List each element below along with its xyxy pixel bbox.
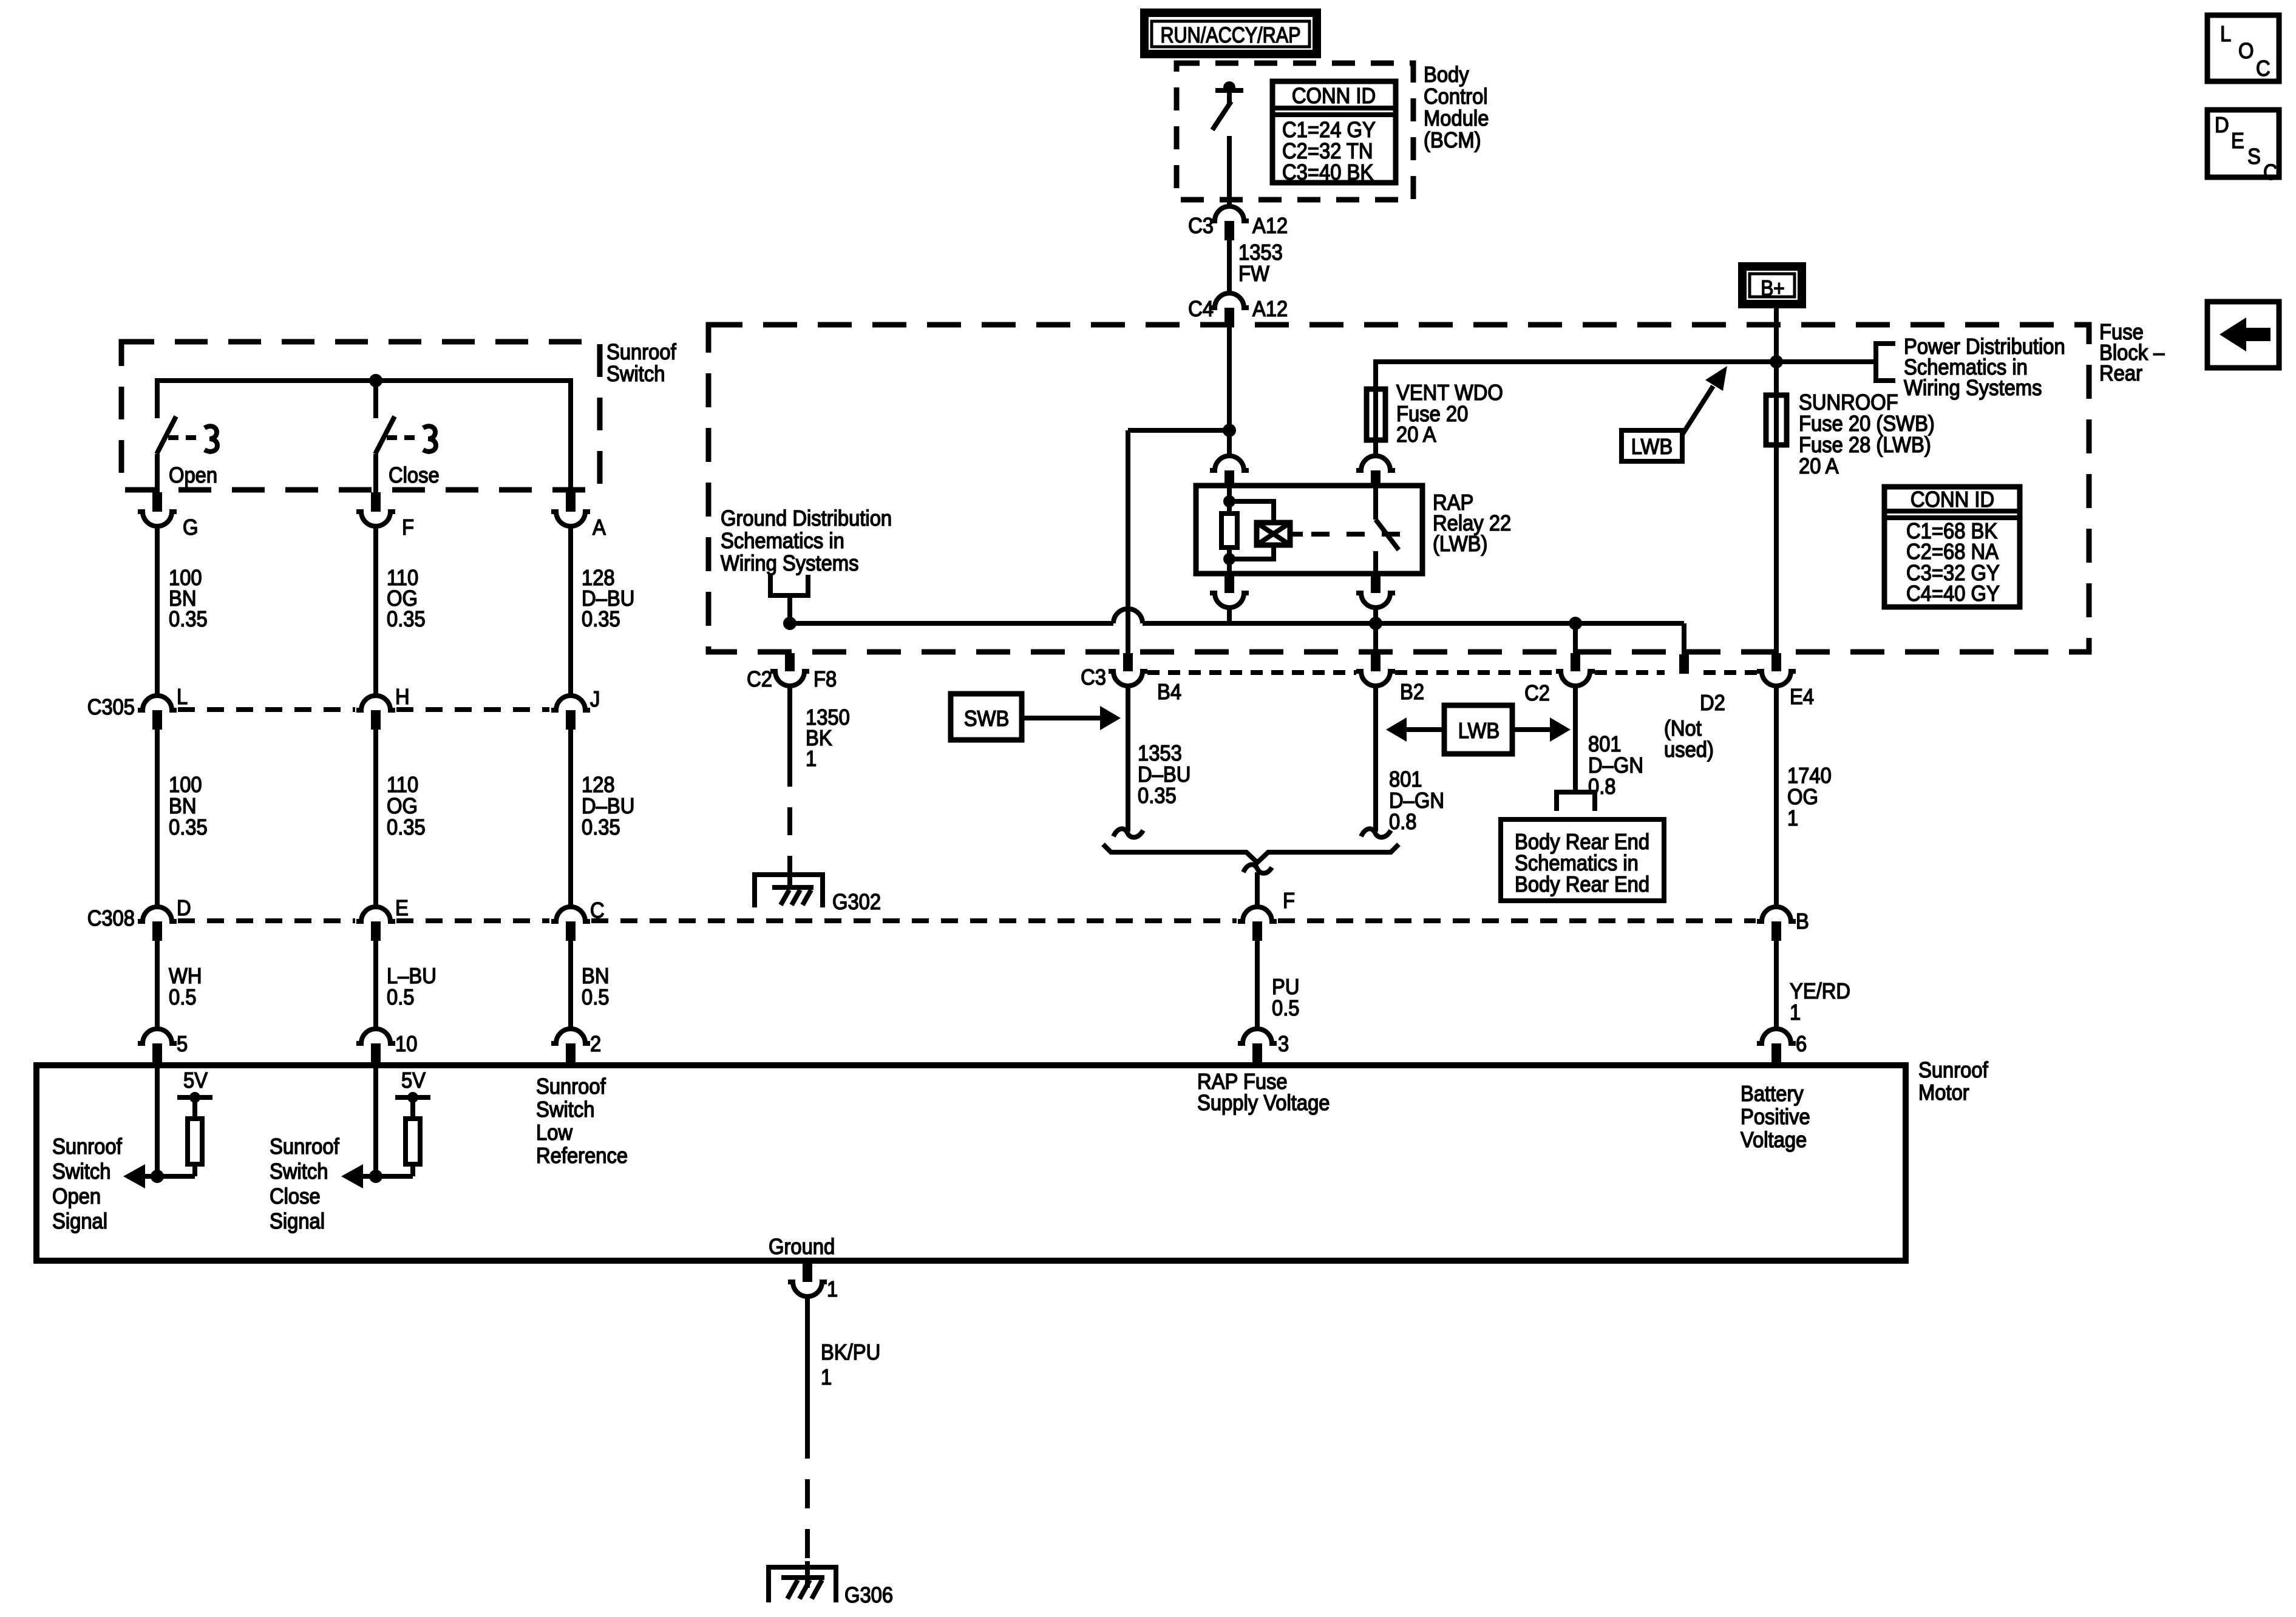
wire WH 0.5 label [169, 964, 202, 1010]
DESC legend box [2207, 110, 2279, 185]
svg-text:Ground Distribution: Ground Distribution [721, 507, 892, 531]
wire BK/PU label [821, 1341, 880, 1390]
wire 801 D-GN 0.8 label (B2) [1389, 768, 1444, 835]
svg-text:Fuse 28 (LWB): Fuse 28 (LWB) [1799, 433, 1931, 458]
svg-text:G302: G302 [832, 890, 881, 915]
svg-text:A12: A12 [1252, 297, 1288, 322]
svg-text:1: 1 [827, 1278, 838, 1302]
svg-text:5: 5 [177, 1032, 188, 1057]
connector C308 pin E [356, 897, 409, 941]
5V rail (open) [177, 1069, 212, 1103]
connector relay coil pin (top) [1210, 456, 1249, 486]
svg-text:OG: OG [1787, 785, 1818, 810]
LWB tag box (harness) [1444, 705, 1512, 754]
wire ground distribution drop [787, 595, 792, 623]
svg-text:801: 801 [1588, 733, 1622, 757]
connector C305 pin J [551, 688, 600, 730]
wire 1740 OG 1 label [1787, 764, 1832, 831]
svg-text:B+: B+ [1761, 276, 1785, 300]
SWB tag box [951, 694, 1022, 740]
connector C305 pin H [356, 685, 410, 730]
wire A to C305 J [568, 526, 573, 696]
svg-text:BN: BN [169, 795, 196, 819]
relay coil wire [1227, 486, 1232, 574]
LWB tag arrow [1682, 366, 1727, 435]
resistor open pull-up [188, 1100, 202, 1176]
motor pin 2 [551, 1029, 601, 1062]
svg-text:Reference: Reference [536, 1144, 628, 1168]
svg-text:O: O [2238, 39, 2254, 64]
wire F8 to G302 dashed [787, 759, 792, 869]
svg-text:BK/PU: BK/PU [821, 1341, 880, 1365]
wire BK/PU dashed [805, 1429, 810, 1561]
svg-text:C4: C4 [1188, 297, 1214, 322]
wire 128 D-BU 0.35 label (lower) [582, 773, 634, 840]
svg-text:Body Rear End: Body Rear End [1515, 830, 1649, 855]
open signal arrowhead [123, 1164, 145, 1188]
CONN ID table (BCM) [1272, 81, 1396, 185]
svg-text:0.35: 0.35 [387, 608, 426, 632]
close switch detent catch [423, 426, 436, 452]
svg-text:C305: C305 [87, 696, 135, 720]
motor pin 1 [788, 1264, 838, 1301]
wire L to C308 D [155, 730, 160, 907]
node ground bus left [783, 617, 796, 630]
close switch blade [375, 416, 395, 454]
close signal horizontal [362, 1174, 413, 1179]
close switch wire from bus [373, 381, 378, 418]
svg-text:CONN ID: CONN ID [1911, 488, 1994, 512]
svg-text:C4=40 GY: C4=40 GY [1906, 582, 2000, 606]
svg-text:Switch: Switch [536, 1098, 594, 1122]
svg-text:Sunroof: Sunroof [270, 1135, 339, 1159]
ground G302 [755, 869, 881, 914]
off-page bracket body rear end [1557, 792, 1595, 811]
svg-text:C2=32 TN: C2=32 TN [1282, 140, 1373, 164]
node close signal junction [369, 1170, 382, 1183]
wire C4 into fuse block [1227, 327, 1232, 430]
wire F8 to G302 solid [787, 686, 792, 759]
wire BK/PU solid [805, 1297, 810, 1429]
label Sunroof Switch Open Signal [52, 1135, 122, 1234]
node switch bus [369, 374, 382, 387]
svg-text:1740: 1740 [1787, 764, 1832, 788]
motor pin 6 [1757, 1029, 1807, 1062]
svg-text:C3: C3 [1188, 214, 1214, 239]
wire A from bus [568, 418, 573, 492]
svg-text:D: D [177, 897, 191, 921]
wire sunroof fuse to E4 [1774, 445, 1779, 653]
svg-text:F: F [1283, 889, 1295, 914]
Fuse Block - Rear dashed outline [708, 325, 2089, 652]
svg-text:CONN ID: CONN ID [1292, 84, 1376, 109]
node junction at RAP feed [1223, 424, 1236, 437]
pin D2 stub (not used) [1679, 654, 1689, 674]
svg-text:F: F [402, 516, 414, 540]
open signal wire inside motor [155, 1062, 160, 1176]
wire B4 end hook [1113, 829, 1143, 837]
svg-text:Switch: Switch [52, 1160, 110, 1184]
svg-text:L: L [2220, 22, 2231, 47]
svg-text:D2: D2 [1700, 691, 1725, 716]
wire E to motor pin 10 [373, 941, 378, 1029]
svg-text:Battery: Battery [1741, 1082, 1804, 1107]
wire B+ to bus [1774, 308, 1779, 362]
connector relay switch pin (top) [1356, 456, 1395, 486]
svg-text:0.35: 0.35 [582, 816, 620, 840]
svg-text:0.5: 0.5 [582, 986, 610, 1010]
connector pin B [1757, 907, 1809, 941]
svg-text:D–GN: D–GN [1588, 754, 1643, 778]
svg-text:Wiring Systems: Wiring Systems [1904, 376, 2042, 401]
label Power Distribution Schematics [1904, 335, 2065, 401]
relay coil parallel loop top [1229, 501, 1274, 520]
node B+ tap [1770, 355, 1783, 368]
svg-text:Motor: Motor [1918, 1081, 1969, 1105]
svg-text:(BCM): (BCM) [1424, 129, 1481, 153]
node open signal junction [151, 1170, 164, 1183]
wire PU 0.5 label [1272, 975, 1300, 1021]
svg-text:Voltage: Voltage [1741, 1128, 1807, 1153]
svg-text:YE/RD: YE/RD [1790, 980, 1850, 1004]
node C2 tap [1569, 617, 1582, 630]
connector relay switch pin (bottom) [1356, 574, 1395, 608]
wire F to C305 H [373, 526, 378, 696]
BCM dashed outline [1177, 63, 1413, 200]
svg-text:L–BU: L–BU [387, 964, 436, 989]
svg-text:F8: F8 [813, 668, 837, 692]
wire B2 end hook [1361, 829, 1391, 837]
label Fuse Block - Rear [2099, 320, 2165, 386]
label Sunroof Switch Close Signal [270, 1135, 339, 1234]
svg-text:C: C [2256, 57, 2271, 81]
svg-text:BN: BN [582, 964, 609, 989]
wire YE/RD 1 label [1790, 980, 1850, 1025]
svg-text:1: 1 [1787, 807, 1798, 831]
svg-text:E: E [395, 897, 409, 921]
relay switch contact lower [1373, 551, 1378, 574]
svg-text:S: S [2247, 145, 2261, 169]
label Battery Positive Voltage [1741, 1082, 1810, 1153]
wire E4 to B [1774, 686, 1779, 907]
svg-text:Signal: Signal [52, 1210, 107, 1234]
off-page bracket to ground distribution [770, 575, 808, 595]
svg-text:Close: Close [389, 464, 440, 488]
open switch detent catch [205, 426, 217, 452]
svg-text:LWB: LWB [1631, 435, 1673, 459]
svg-text:10: 10 [395, 1032, 417, 1057]
svg-text:A12: A12 [1252, 214, 1288, 239]
svg-text:1: 1 [806, 747, 817, 771]
svg-text:0.8: 0.8 [1389, 810, 1417, 835]
svg-text:0.35: 0.35 [582, 608, 620, 632]
relay coil box-X symbol [1255, 522, 1303, 546]
relay switch contact upper [1373, 486, 1378, 520]
svg-text:J: J [590, 688, 600, 712]
open signal horizontal [144, 1174, 195, 1179]
wire G to C305 L [155, 526, 160, 696]
wire hop over B4 drop [1113, 609, 1143, 623]
close signal wire inside motor [373, 1062, 378, 1176]
wire C3 to C4 [1227, 240, 1232, 293]
svg-text:L: L [177, 685, 188, 710]
svg-text:PU: PU [1272, 975, 1299, 1000]
switch common bus [157, 381, 571, 418]
svg-text:Open: Open [52, 1185, 101, 1209]
wire 801 D-GN 0.8 label (C2) [1588, 733, 1643, 799]
wire C2 to body rear end [1573, 686, 1578, 792]
wire H to C308 E [373, 730, 378, 907]
wire junction to B4 drop [1128, 428, 1229, 433]
wire B2 unterminated [1373, 686, 1378, 832]
Sunroof Motor box [36, 1065, 1906, 1261]
wire 1350 BK 1 label [806, 706, 850, 771]
svg-text:Low: Low [536, 1121, 572, 1145]
label RAP Fuse Supply Voltage [1197, 1070, 1330, 1116]
connector C1 pin B2 [1356, 653, 1424, 704]
wire close switch lower [373, 454, 378, 492]
svg-text:D: D [2215, 114, 2229, 138]
wire 1353 D-BU 0.35 label [1138, 742, 1190, 808]
wire 110 OG 0.35 label (upper) [387, 566, 426, 632]
node relay coil top [1223, 495, 1235, 507]
svg-text:Supply Voltage: Supply Voltage [1197, 1091, 1330, 1116]
svg-text:20 A: 20 A [1396, 423, 1436, 447]
svg-text:100: 100 [169, 773, 202, 798]
relay actuation dashed link [1311, 532, 1403, 537]
LWB tag arrows [1386, 717, 1571, 742]
relay coil parallel loop bottom [1229, 547, 1274, 559]
wire L-BU 0.5 label [387, 964, 436, 1010]
svg-text:0.35: 0.35 [387, 816, 426, 840]
svg-text:C2: C2 [1524, 682, 1550, 706]
svg-text:3: 3 [1278, 1032, 1289, 1057]
connector C2 pin F8 [747, 653, 837, 691]
connector pin G [138, 492, 198, 540]
svg-text:SUNROOF: SUNROOF [1799, 391, 1898, 415]
svg-text:Close: Close [270, 1185, 321, 1209]
svg-text:20 A: 20 A [1799, 455, 1839, 479]
BCM internal switch [1212, 81, 1243, 207]
wire D to motor pin 5 [155, 941, 160, 1029]
svg-text:C: C [2263, 161, 2278, 185]
svg-text:C2: C2 [747, 668, 772, 692]
svg-text:C3: C3 [1081, 666, 1106, 690]
svg-text:C3=40 BK: C3=40 BK [1282, 161, 1373, 185]
connector C3 pin B4 [1081, 653, 1181, 704]
node relay coil bottom [1223, 553, 1235, 565]
motor pin 5 [138, 1029, 188, 1062]
svg-text:Body Rear End: Body Rear End [1515, 873, 1649, 897]
svg-text:801: 801 [1389, 768, 1422, 792]
label Sunroof Switch [606, 341, 676, 387]
connector C308 pin D [87, 897, 191, 941]
svg-text:2: 2 [590, 1032, 601, 1057]
svg-text:H: H [395, 685, 410, 710]
wire J to C308 C [568, 730, 573, 907]
svg-text:0.35: 0.35 [169, 608, 208, 632]
off-page bracket power distribution [1876, 344, 1895, 381]
wire B4 unterminated [1126, 686, 1130, 832]
wire D2 drop [1682, 623, 1686, 654]
wire fuse to relay connector [1373, 453, 1378, 458]
wire B4 drop vertical [1126, 430, 1130, 653]
close signal arrowhead [341, 1164, 363, 1188]
harness connector row dashed line [1147, 670, 1757, 675]
connector pin F (inline) [1238, 889, 1295, 941]
svg-text:B: B [1796, 910, 1809, 934]
SWB tag arrow [1022, 706, 1121, 730]
open switch detent dashes [168, 435, 200, 440]
svg-text:0.5: 0.5 [169, 986, 197, 1010]
svg-text:G: G [183, 516, 198, 540]
svg-text:used): used) [1664, 738, 1714, 762]
svg-text:1: 1 [1790, 1001, 1801, 1025]
wire C to motor pin 2 [568, 941, 573, 1029]
svg-text:Switch: Switch [270, 1160, 328, 1184]
svg-text:1353: 1353 [1238, 241, 1283, 265]
svg-text:B4: B4 [1157, 680, 1181, 705]
svg-text:Signal: Signal [270, 1210, 325, 1234]
wire relay coil to ground bus [1227, 608, 1232, 623]
svg-text:SWB: SWB [964, 707, 1010, 731]
Sunroof Switch dashed outline [121, 342, 600, 490]
svg-text:Module: Module [1424, 107, 1489, 131]
wire B to motor pin 6 [1774, 941, 1779, 1029]
svg-text:Open: Open [169, 464, 217, 488]
svg-text:FW: FW [1238, 262, 1269, 286]
svg-text:Sunroof: Sunroof [536, 1075, 606, 1099]
wire 1353 FW label [1238, 241, 1283, 286]
wire brace to F [1255, 872, 1260, 907]
label Body Control Module (BCM) [1424, 63, 1489, 153]
LWB tag box (fuse) [1622, 430, 1682, 461]
connector pin F [356, 492, 414, 540]
B+ power box [1742, 266, 1802, 304]
connector C305 pin L [87, 685, 188, 730]
svg-text:5V: 5V [401, 1069, 426, 1093]
5V rail (close) [395, 1069, 430, 1103]
svg-text:WH: WH [169, 964, 202, 989]
svg-text:0.5: 0.5 [1272, 997, 1300, 1021]
fuse SUNROOF Fuse 20/28 20A [1766, 362, 1787, 653]
svg-text:Sunroof: Sunroof [1918, 1059, 1988, 1083]
svg-text:1353: 1353 [1138, 742, 1182, 766]
LOC legend box [2207, 15, 2279, 81]
ground bus segment right [1143, 621, 1684, 626]
wire 110 OG 0.35 label (lower) [387, 773, 426, 840]
svg-text:128: 128 [582, 773, 615, 798]
ground bus segment left [790, 621, 1113, 626]
svg-text:Control: Control [1424, 85, 1488, 109]
relay coil resistor [1221, 514, 1237, 547]
svg-text:Ground: Ground [769, 1235, 835, 1259]
B+ feed line [1376, 362, 1874, 456]
svg-text:0.8: 0.8 [1588, 775, 1616, 799]
connector pin A [551, 492, 606, 540]
open switch blade [157, 381, 176, 454]
svg-text:Fuse 20 (SWB): Fuse 20 (SWB) [1799, 412, 1935, 436]
svg-text:OG: OG [387, 795, 418, 819]
svg-text:D–BU: D–BU [582, 795, 634, 819]
connector pin E4 [1757, 653, 1814, 709]
svg-text:0.5: 0.5 [387, 986, 415, 1010]
svg-text:D–GN: D–GN [1389, 789, 1444, 813]
label SUNROOF Fuse 20 (SWB) Fuse 28 (LWB) 20 A [1799, 391, 1935, 479]
label box Body Rear End Schematics [1501, 819, 1664, 901]
back-arrow legend box [2207, 302, 2279, 368]
label Sunroof Motor [1918, 1059, 1988, 1105]
svg-text:Body: Body [1424, 63, 1469, 87]
relay RAP Relay 22 box [1196, 486, 1422, 574]
wire F to motor pin 3 [1255, 941, 1260, 1029]
connector C308 pin C [551, 899, 605, 941]
ground G306 [769, 1561, 893, 1607]
svg-text:Switch: Switch [606, 362, 665, 387]
svg-text:Sunroof: Sunroof [52, 1135, 122, 1159]
connector relay coil pin (bottom) [1210, 574, 1249, 608]
CONN ID table (fuse block) [1884, 487, 2020, 607]
close switch detent dashes [387, 435, 419, 440]
resistor close pull-up [406, 1100, 420, 1176]
svg-text:C2=68 NA: C2=68 NA [1906, 540, 1999, 564]
wire B2 drop [1373, 623, 1378, 653]
wire 100 BN 0.35 label (lower) [169, 773, 208, 840]
svg-text:Schematics in: Schematics in [1515, 852, 1639, 876]
wire open switch lower [155, 454, 160, 492]
svg-text:E: E [2231, 129, 2244, 154]
svg-text:VENT WDO: VENT WDO [1396, 381, 1503, 405]
svg-text:5V: 5V [183, 1069, 208, 1093]
wire 100 BN 0.35 label (upper) [169, 566, 208, 632]
svg-text:Wiring Systems: Wiring Systems [721, 552, 858, 576]
svg-text:D–BU: D–BU [1138, 763, 1190, 787]
svg-text:Schematics in: Schematics in [721, 529, 844, 554]
svg-text:1: 1 [821, 1366, 832, 1390]
wire C2 drop [1573, 623, 1578, 653]
power feed box RUN/ACCY/RAP [1144, 13, 1317, 54]
svg-text:E4: E4 [1790, 685, 1814, 710]
label VENT WDO Fuse 20 20 A [1396, 381, 1503, 447]
svg-text:LWB: LWB [1458, 719, 1500, 744]
wire relay switch to B2 node [1373, 608, 1378, 623]
label RAP Relay 22 (LWB) [1433, 491, 1511, 557]
svg-text:0.35: 0.35 [169, 816, 208, 840]
relay switch blade [1376, 520, 1399, 550]
connector C4 pin A12 [1188, 293, 1288, 327]
svg-text:RAP Fuse: RAP Fuse [1197, 1070, 1288, 1094]
svg-text:C308: C308 [87, 907, 135, 931]
svg-text:B2: B2 [1400, 680, 1424, 705]
C305 dashed row [178, 707, 549, 712]
svg-text:G306: G306 [844, 1584, 893, 1608]
wire BN 0.5 label [582, 964, 610, 1010]
node B2 tap [1369, 617, 1382, 630]
svg-text:(LWB): (LWB) [1433, 532, 1487, 557]
brace center hook [1243, 864, 1272, 873]
wire 128 D-BU 0.35 label (upper) [582, 566, 634, 632]
C308 dashed row [178, 918, 1756, 923]
label D2 (Not used) [1664, 691, 1725, 762]
motor pin 10 [356, 1029, 417, 1062]
svg-text:110: 110 [387, 773, 418, 798]
svg-text:0.35: 0.35 [1138, 784, 1177, 808]
motor pin 3 [1238, 1029, 1289, 1062]
svg-text:6: 6 [1796, 1032, 1807, 1057]
svg-text:RUN/ACCY/RAP: RUN/ACCY/RAP [1160, 24, 1300, 48]
svg-text:Sunroof: Sunroof [606, 341, 676, 365]
fuse VENT WDO Fuse 20 20A [1367, 389, 1385, 440]
